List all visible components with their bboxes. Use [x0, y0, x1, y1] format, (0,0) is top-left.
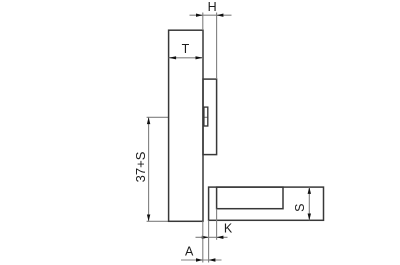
dimension S bottom arrow: [308, 214, 311, 221]
svg-text:H: H: [208, 0, 217, 14]
dimension A extension line right (panel left face down): [208, 220, 210, 262]
svg-text:K: K: [224, 222, 233, 236]
hinge cup cam (small rectangle): [204, 107, 208, 126]
svg-text:A: A: [185, 244, 194, 258]
dimension S top arrow: [308, 187, 311, 194]
wire extension of door bottom to the left: [147, 220, 169, 222]
dimension K right arrow: [217, 236, 224, 239]
cabinet side panel (bottom horizontal rectangle): [209, 187, 324, 220]
dimension A left arrow: [196, 258, 203, 261]
dimension 37+S top arrow: [147, 117, 150, 124]
dimension K line: [196, 236, 228, 238]
dimension T right arrow: [196, 56, 204, 59]
svg-text:S: S: [293, 204, 307, 212]
dimension 37+S line (vertical): [148, 117, 150, 221]
wire centerline of hinge cup (horizontal, y=117.3): [147, 116, 208, 118]
dimension A extension line left (door right face down): [202, 221, 204, 262]
svg-text:37+S: 37+S: [133, 151, 148, 182]
dimension A line: [181, 259, 222, 261]
dimension H extension line left (door right face up): [202, 13, 204, 31]
mounting plate (inner rectangle of side panel): [217, 187, 283, 209]
dimension H left arrow: [196, 14, 203, 17]
door panel (tall rectangle): [169, 30, 203, 221]
dimension K left arrow: [202, 236, 209, 239]
dimension A right arrow: [209, 258, 216, 261]
svg-text:T: T: [182, 42, 190, 56]
dimension K extension line (mounting plate left face down): [216, 209, 218, 240]
dimension S line (vertical, inside side panel): [308, 187, 310, 220]
dimension H line: [190, 14, 232, 16]
dimension H right arrow: [217, 14, 224, 17]
dimension 37+S bottom arrow: [147, 215, 150, 222]
dimension T left arrow: [169, 56, 177, 59]
dimension H extension line right (plate right face up): [216, 13, 218, 80]
hinge arm plate (right of door): [203, 79, 217, 155]
dimension T line: [169, 57, 203, 59]
